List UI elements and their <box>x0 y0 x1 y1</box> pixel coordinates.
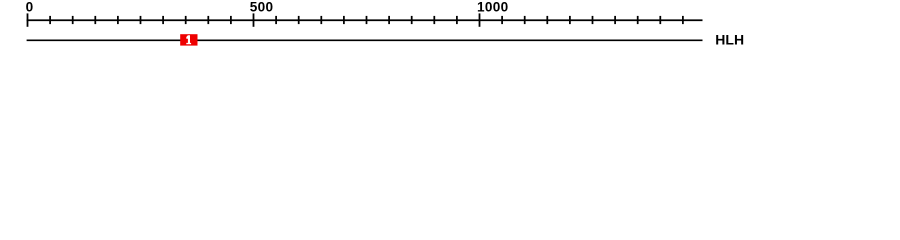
motif box 1 (red) <box>180 34 197 45</box>
minor tick 1050 <box>501 16 503 24</box>
minor tick 1250 <box>592 16 594 24</box>
minor tick 550 <box>275 16 277 24</box>
minor tick 1450 <box>682 16 684 24</box>
background <box>0 0 900 58</box>
minor tick 900 <box>433 16 435 24</box>
ruler axis line <box>27 19 703 21</box>
svg-text:500: 500 <box>250 0 274 15</box>
minor tick 1200 <box>569 16 571 24</box>
minor tick 650 <box>320 16 322 24</box>
minor tick 750 <box>366 16 368 24</box>
minor tick 1300 <box>614 16 616 24</box>
svg-text:1000: 1000 <box>477 0 508 15</box>
svg-text:HLH: HLH <box>715 31 744 47</box>
minor tick 250 <box>140 16 142 24</box>
minor tick 1150 <box>546 16 548 24</box>
minor tick 700 <box>343 16 345 24</box>
minor tick 300 <box>162 16 164 24</box>
minor tick 350 <box>185 16 187 24</box>
minor tick 200 <box>117 16 119 24</box>
major tick 500 <box>253 13 255 26</box>
minor tick 1350 <box>637 16 639 24</box>
motif number 1 (white bitmap-style digit) <box>186 35 191 44</box>
minor tick 800 <box>388 16 390 24</box>
protein backbone line <box>27 39 703 41</box>
minor tick 50 <box>49 16 51 24</box>
minor tick 600 <box>298 16 300 24</box>
minor tick 150 <box>94 16 96 24</box>
svg-text:0: 0 <box>26 0 34 15</box>
major tick 0 <box>27 13 29 26</box>
minor tick 1100 <box>524 16 526 24</box>
minor tick 450 <box>230 16 232 24</box>
minor tick 400 <box>207 16 209 24</box>
minor tick 850 <box>411 16 413 24</box>
major tick 1000 <box>479 13 481 26</box>
minor tick 1400 <box>659 16 661 24</box>
minor tick 950 <box>456 16 458 24</box>
minor tick 100 <box>72 16 74 24</box>
